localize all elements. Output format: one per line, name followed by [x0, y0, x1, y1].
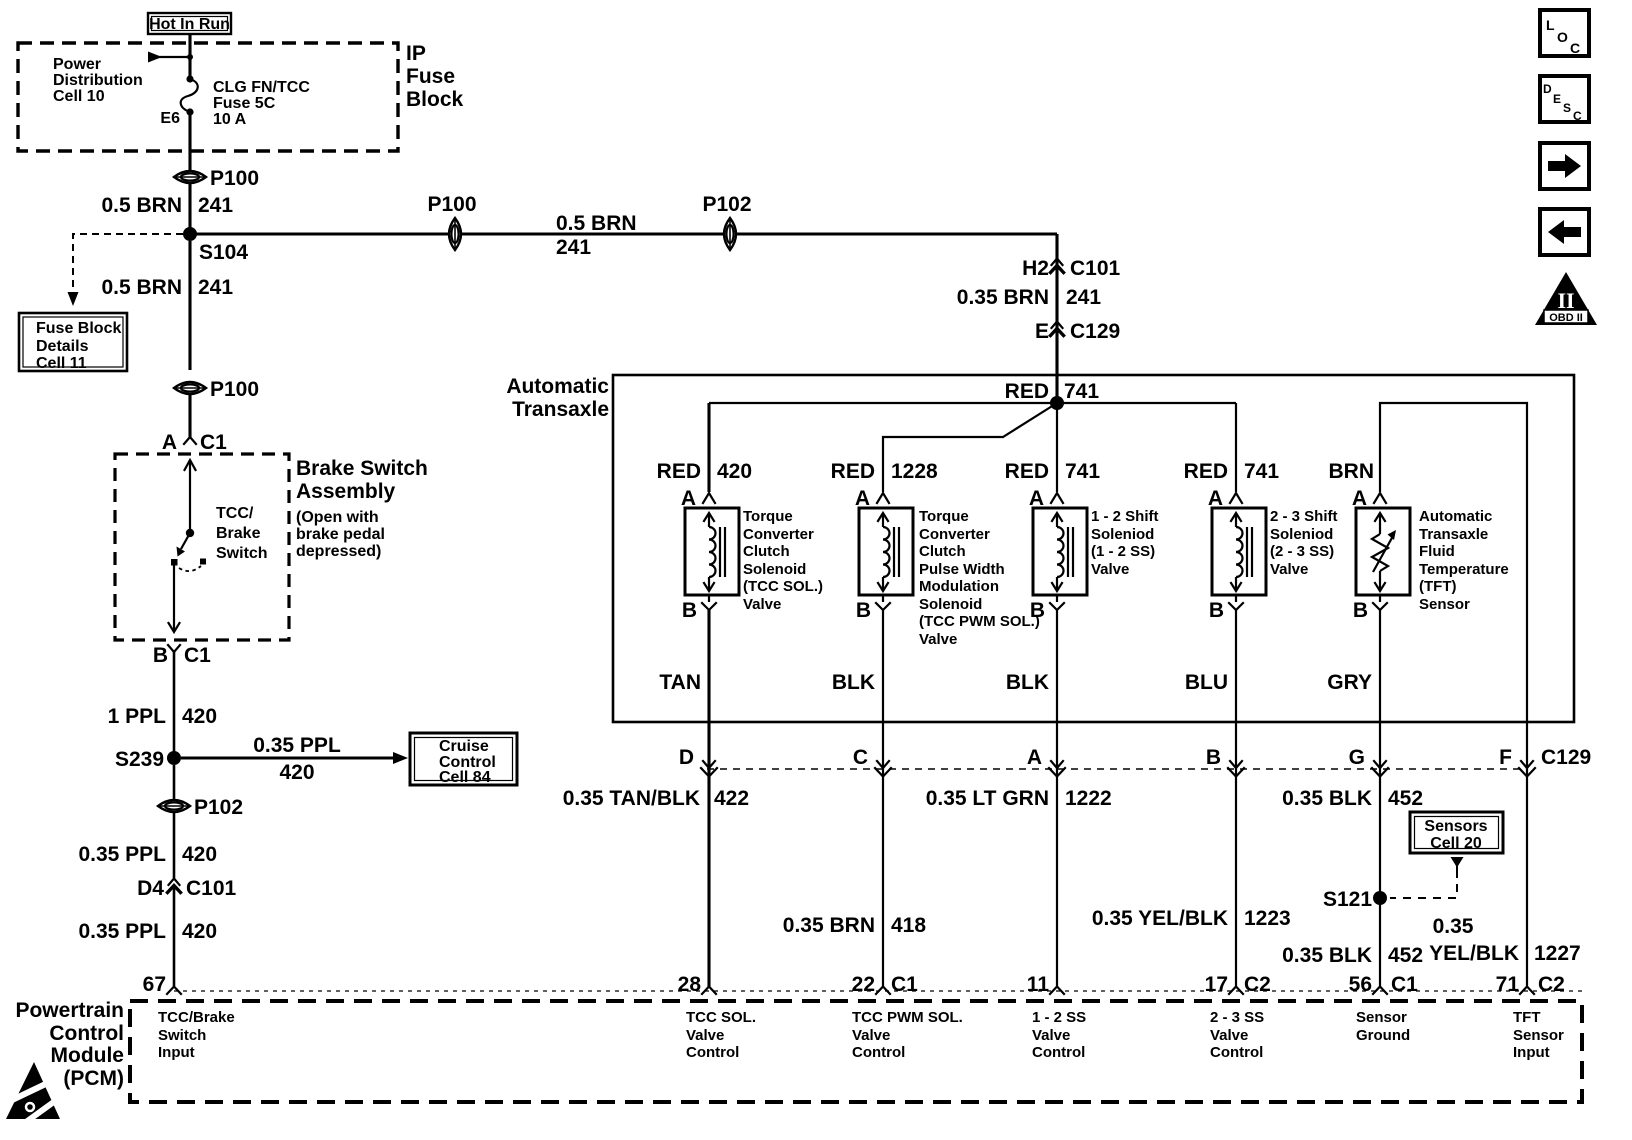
svg-text:C1: C1	[891, 973, 918, 996]
svg-text:17: 17	[1205, 973, 1228, 996]
svg-text:Modulation: Modulation	[919, 578, 999, 595]
svg-text:28: 28	[678, 973, 702, 996]
wire P100 to S104	[188, 184, 191, 234]
svg-text:(TCC SOL.): (TCC SOL.)	[743, 578, 823, 595]
connector P102 (grommet)	[158, 796, 243, 819]
wire S239 down to P102	[173, 765, 176, 799]
node Hot In Run	[148, 13, 231, 34]
svg-text:(2 - 3 SS): (2 - 3 SS)	[1270, 543, 1334, 560]
svg-text:741: 741	[1064, 380, 1099, 403]
svg-text:G: G	[1349, 746, 1365, 769]
svg-text:0.35 PPL: 0.35 PPL	[253, 734, 341, 757]
svg-text:B: B	[153, 644, 168, 667]
svg-text:P102: P102	[702, 193, 751, 216]
connector C129 pin C	[853, 746, 891, 777]
svg-text:0.35 BLK: 0.35 BLK	[1282, 787, 1372, 810]
svg-text:241: 241	[198, 194, 233, 217]
svg-text:C: C	[853, 746, 868, 769]
wire dashed branch to Fuse Block Details	[68, 234, 184, 306]
svg-text:brake pedal: brake pedal	[296, 526, 385, 543]
svg-text:C101: C101	[1070, 257, 1121, 280]
svg-text:Input: Input	[1513, 1044, 1550, 1061]
svg-text:B: B	[1209, 599, 1224, 622]
solenoid 1-2 Shift (1-2 SS)	[1029, 487, 1159, 622]
svg-text:C2: C2	[1538, 973, 1565, 996]
svg-text:Hot In Run: Hot In Run	[149, 16, 230, 33]
svg-text:Fuse 5C: Fuse 5C	[213, 95, 276, 112]
connector P100 inline on horizontal run	[427, 193, 476, 250]
node S121	[1373, 891, 1387, 905]
connector P102 inline on horizontal run	[702, 193, 751, 250]
wire RED 741 bus	[709, 402, 1236, 404]
pin 11	[1027, 973, 1064, 996]
svg-text:0.35: 0.35	[1433, 915, 1474, 938]
svg-text:Assembly: Assembly	[296, 480, 396, 503]
svg-text:C1: C1	[1391, 973, 1418, 996]
svg-text:452: 452	[1388, 787, 1423, 810]
solenoid TCC PWM SOL (Torque Converter Clutch Pulse Width Modulation Solenoid Valve)	[855, 487, 1040, 648]
svg-text:0.5 BRN: 0.5 BRN	[556, 212, 637, 235]
connector C1 pin B symbol	[153, 644, 211, 667]
svg-text:0.35 BRN: 0.35 BRN	[783, 914, 875, 937]
svg-text:B: B	[1353, 599, 1368, 622]
svg-text:56: 56	[1349, 973, 1372, 996]
wire arrow to Power Distribution	[148, 52, 193, 63]
svg-text:RED: RED	[1005, 380, 1049, 403]
svg-text:P100: P100	[210, 378, 259, 401]
svg-text:420: 420	[182, 843, 217, 866]
svg-text:TCC/Brake: TCC/Brake	[158, 1009, 235, 1026]
svg-text:Sensor: Sensor	[1356, 1009, 1407, 1026]
svg-text:S239: S239	[115, 748, 164, 771]
icon LOC button	[1540, 10, 1589, 56]
svg-text:Torque: Torque	[919, 508, 969, 525]
svg-text:1 - 2 SS: 1 - 2 SS	[1032, 1009, 1086, 1026]
svg-text:Fuse Block: Fuse Block	[36, 320, 121, 337]
svg-text:RED: RED	[1005, 460, 1049, 483]
svg-text:Sensors: Sensors	[1424, 818, 1487, 835]
svg-text:420: 420	[182, 705, 217, 728]
svg-text:0.35 TAN/BLK: 0.35 TAN/BLK	[563, 787, 700, 810]
svg-text:Temperature: Temperature	[1419, 561, 1509, 578]
svg-text:1 PPL: 1 PPL	[108, 705, 167, 728]
svg-text:22: 22	[852, 973, 875, 996]
node Cruise Control Cell 84	[410, 733, 517, 786]
svg-text:E: E	[1553, 92, 1561, 106]
pin 22 C1	[852, 973, 919, 996]
svg-text:422: 422	[714, 787, 749, 810]
svg-text:D4: D4	[137, 877, 164, 900]
svg-text:C101: C101	[186, 877, 237, 900]
svg-text:Cell 10: Cell 10	[53, 88, 105, 105]
svg-text:S121: S121	[1323, 888, 1372, 911]
svg-text:C1: C1	[200, 431, 227, 454]
connector C129 pin E inline symbol	[1035, 320, 1120, 343]
icon OBD II triangle	[1535, 272, 1597, 325]
svg-text:A: A	[1027, 746, 1042, 769]
wire P102 to C101	[173, 813, 176, 878]
IP Fuse Block dashed box	[18, 43, 398, 151]
svg-text:S104: S104	[199, 241, 248, 264]
svg-text:420: 420	[717, 460, 752, 483]
wire F column down	[1526, 722, 1528, 987]
svg-text:A: A	[162, 431, 177, 454]
svg-text:Soleniod: Soleniod	[1091, 526, 1154, 543]
svg-text:Block: Block	[406, 88, 464, 111]
node RED 741 junction	[1050, 396, 1064, 410]
connector P100 (grommet)	[174, 167, 259, 190]
svg-text:241: 241	[198, 276, 233, 299]
svg-text:L: L	[1546, 17, 1555, 33]
svg-text:RED: RED	[657, 460, 701, 483]
svg-text:depressed): depressed)	[296, 543, 381, 560]
wire TFT B down	[1379, 610, 1381, 987]
wire B C1 to S239	[173, 652, 176, 758]
svg-text:Transaxle: Transaxle	[512, 398, 609, 421]
connector C129 pin B	[1206, 746, 1244, 777]
svg-text:Valve: Valve	[743, 596, 781, 613]
svg-text:Clutch: Clutch	[743, 543, 790, 560]
svg-text:11: 11	[1027, 973, 1050, 996]
connector C129 pin G	[1349, 746, 1388, 777]
svg-text:67: 67	[143, 973, 166, 996]
svg-text:C: C	[1570, 40, 1580, 56]
svg-text:H2: H2	[1022, 257, 1049, 280]
connector C129 pin F	[1499, 746, 1591, 777]
svg-text:P100: P100	[210, 167, 259, 190]
svg-text:0.35 BRN: 0.35 BRN	[957, 286, 1049, 309]
wire drop to 2-3 SS	[1235, 403, 1237, 492]
svg-text:Transaxle: Transaxle	[1419, 526, 1488, 543]
svg-text:(Open with: (Open with	[296, 509, 379, 526]
svg-text:Solenoid: Solenoid	[743, 561, 806, 578]
svg-text:TFT: TFT	[1513, 1009, 1541, 1026]
connector P100 second (grommet)	[174, 378, 259, 401]
svg-text:Torque: Torque	[743, 508, 793, 525]
svg-text:Powertrain: Powertrain	[15, 999, 124, 1022]
svg-text:GRY: GRY	[1327, 671, 1372, 694]
svg-text:(TFT): (TFT)	[1419, 578, 1456, 595]
wire right column down to transaxle	[1055, 234, 1058, 403]
wire 2-3 SS B down	[1235, 610, 1237, 987]
svg-text:Switch: Switch	[158, 1027, 206, 1044]
svg-text:Switch: Switch	[216, 545, 268, 562]
svg-text:TCC/: TCC/	[216, 505, 254, 522]
svg-text:420: 420	[279, 761, 314, 784]
svg-text:0.35 BLK: 0.35 BLK	[1282, 944, 1372, 967]
svg-text:F: F	[1499, 746, 1512, 769]
svg-text:C129: C129	[1541, 746, 1591, 769]
svg-text:Automatic: Automatic	[1419, 508, 1492, 525]
svg-text:Control: Control	[49, 1022, 124, 1045]
svg-text:Soleniod: Soleniod	[1270, 526, 1333, 543]
svg-text:TCC SOL.: TCC SOL.	[686, 1009, 756, 1026]
solenoid TCC SOL (Torque Converter Clutch Solenoid Valve)	[681, 487, 823, 622]
wire drop to TCC SOL	[707, 403, 710, 492]
icon DESC button	[1540, 76, 1589, 123]
svg-text:Converter: Converter	[743, 526, 814, 543]
svg-text:Module: Module	[51, 1044, 125, 1067]
node Sensors Cell 20	[1410, 812, 1503, 853]
wire P100 to connector C1 pin A	[188, 395, 191, 437]
wire dashed from Sensors Cell 20 to S121	[1390, 857, 1464, 898]
svg-text:741: 741	[1244, 460, 1279, 483]
svg-text:Brake: Brake	[216, 525, 261, 542]
wire from Hot In Run into IP fuse block	[188, 34, 191, 79]
svg-text:10 A: 10 A	[213, 111, 247, 128]
svg-text:Pulse Width: Pulse Width	[919, 561, 1005, 578]
svg-text:BLK: BLK	[832, 671, 875, 694]
svg-text:0.35 YEL/BLK: 0.35 YEL/BLK	[1092, 907, 1228, 930]
svg-text:TAN: TAN	[659, 671, 701, 694]
svg-text:Sensor: Sensor	[1419, 596, 1470, 613]
svg-text:2 - 3 Shift: 2 - 3 Shift	[1270, 508, 1338, 525]
svg-text:Control: Control	[852, 1044, 905, 1061]
svg-text:Details: Details	[36, 338, 89, 355]
svg-text:241: 241	[556, 236, 591, 259]
svg-text:Valve: Valve	[919, 631, 957, 648]
svg-text:Fuse: Fuse	[406, 65, 455, 88]
svg-text:Valve: Valve	[686, 1027, 724, 1044]
svg-text:E: E	[1035, 320, 1049, 343]
ESD warning triangle	[6, 1062, 62, 1122]
wire TCC SOL B down	[707, 610, 710, 987]
svg-text:Converter: Converter	[919, 526, 990, 543]
svg-text:BLU: BLU	[1185, 671, 1228, 694]
wire TCC PWM B down	[882, 610, 884, 987]
svg-text:418: 418	[891, 914, 926, 937]
switch TCC/Brake Switch	[169, 460, 207, 632]
svg-text:C1: C1	[184, 644, 211, 667]
svg-text:(TCC PWM SOL.): (TCC PWM SOL.)	[919, 613, 1040, 630]
svg-text:RED: RED	[831, 460, 875, 483]
svg-text:Brake Switch: Brake Switch	[296, 457, 428, 480]
svg-text:71: 71	[1496, 973, 1520, 996]
wire main horizontal run S104 to right column	[190, 232, 1057, 235]
svg-text:C129: C129	[1070, 320, 1120, 343]
svg-text:TCC PWM SOL.: TCC PWM SOL.	[852, 1009, 963, 1026]
Brake Switch Assembly dashed box	[115, 454, 289, 640]
svg-text:D: D	[679, 746, 694, 769]
fuse CLG FN/TCC Fuse 5C 10A	[181, 75, 198, 115]
connector C129 dashed interface line	[707, 768, 1527, 770]
svg-text:1228: 1228	[891, 460, 938, 483]
svg-text:B: B	[682, 599, 697, 622]
svg-text:Control: Control	[1210, 1044, 1263, 1061]
wire diagonal branch to TCC PWM	[883, 403, 1057, 492]
wire arrow to Cruise Control	[181, 734, 408, 784]
svg-text:OBD II: OBD II	[1549, 312, 1583, 324]
svg-text:Cell 84: Cell 84	[439, 769, 491, 786]
svg-text:Ground: Ground	[1356, 1027, 1410, 1044]
svg-text:0.35 PPL: 0.35 PPL	[78, 920, 166, 943]
svg-text:0.35 PPL: 0.35 PPL	[78, 843, 166, 866]
svg-text:1227: 1227	[1534, 942, 1581, 965]
svg-text:Solenoid: Solenoid	[919, 596, 982, 613]
svg-text:C2: C2	[1244, 973, 1271, 996]
svg-text:S: S	[1563, 101, 1571, 115]
wire 1-2 SS B down	[1056, 610, 1058, 987]
svg-text:Valve: Valve	[1091, 561, 1129, 578]
wire drop to 1-2 SS	[1056, 403, 1058, 492]
pin 28	[678, 973, 716, 996]
icon right-arrow button	[1540, 143, 1589, 189]
svg-text:IP: IP	[406, 42, 426, 65]
wire TFT feed loop	[1380, 403, 1527, 722]
pin 56 C1	[1349, 973, 1419, 996]
svg-text:BRN: BRN	[1329, 460, 1375, 483]
svg-text:Valve: Valve	[1032, 1027, 1070, 1044]
svg-text:Control: Control	[1032, 1044, 1085, 1061]
wire S104 down to P100	[188, 241, 191, 370]
svg-text:Sensor: Sensor	[1513, 1027, 1564, 1044]
svg-text:Distribution: Distribution	[53, 72, 143, 89]
svg-text:1 - 2 Shift: 1 - 2 Shift	[1091, 508, 1159, 525]
svg-text:O: O	[1557, 29, 1568, 45]
connector C1 pin A symbol	[162, 431, 227, 454]
svg-text:(PCM): (PCM)	[63, 1067, 124, 1090]
sensor TFT (Automatic Transaxle Fluid Temperature Sensor)	[1352, 487, 1509, 622]
svg-text:Control: Control	[686, 1044, 739, 1061]
svg-text:420: 420	[182, 920, 217, 943]
node S104	[183, 227, 197, 241]
svg-text:1222: 1222	[1065, 787, 1112, 810]
svg-text:RED: RED	[1184, 460, 1228, 483]
svg-text:Cruise: Cruise	[439, 738, 489, 755]
svg-text:Cell 11: Cell 11	[36, 355, 87, 372]
svg-text:452: 452	[1388, 944, 1423, 967]
connector C129 pin A	[1027, 746, 1065, 777]
connector C101 pin H2 inline symbol	[1022, 257, 1120, 280]
svg-text:E6: E6	[160, 110, 180, 127]
svg-text:Input: Input	[158, 1044, 195, 1061]
svg-text:Valve: Valve	[1270, 561, 1308, 578]
svg-text:D: D	[1543, 82, 1552, 96]
svg-text:BLK: BLK	[1006, 671, 1049, 694]
pin 71 C2	[1496, 973, 1565, 996]
svg-text:0.5 BRN: 0.5 BRN	[101, 194, 182, 217]
svg-text:CLG FN/TCC: CLG FN/TCC	[213, 79, 310, 96]
svg-text:Power: Power	[53, 56, 101, 73]
svg-text:1223: 1223	[1244, 907, 1291, 930]
wire C101 to PCM pin 67	[173, 886, 176, 986]
svg-text:P100: P100	[427, 193, 476, 216]
wire fuse to P100	[188, 112, 191, 170]
svg-text:Automatic: Automatic	[506, 375, 609, 398]
svg-text:B: B	[856, 599, 871, 622]
svg-text:2 - 3 SS: 2 - 3 SS	[1210, 1009, 1264, 1026]
PCM dashed box	[130, 1001, 1582, 1102]
svg-text:P102: P102	[194, 796, 243, 819]
node Fuse Block Details Cell 11	[19, 313, 127, 372]
connector C129 pin D	[679, 746, 717, 777]
svg-text:Valve: Valve	[1210, 1027, 1248, 1044]
svg-text:Valve: Valve	[852, 1027, 890, 1044]
svg-text:(1 - 2 SS): (1 - 2 SS)	[1091, 543, 1155, 560]
icon left-arrow button	[1540, 209, 1589, 255]
Automatic Transaxle box	[613, 375, 1574, 722]
node S239	[167, 751, 181, 765]
pin 67	[143, 973, 181, 996]
connector C101 pin D4 inline symbol	[137, 877, 236, 900]
PCM connector face thin dashed line	[174, 990, 1582, 992]
svg-text:741: 741	[1065, 460, 1100, 483]
svg-text:B: B	[1030, 599, 1045, 622]
pin 17 C2	[1205, 973, 1271, 996]
svg-text:0.35 LT GRN: 0.35 LT GRN	[926, 787, 1049, 810]
svg-text:YEL/BLK: YEL/BLK	[1429, 942, 1519, 965]
svg-text:0.5 BRN: 0.5 BRN	[101, 276, 182, 299]
svg-text:Clutch: Clutch	[919, 543, 966, 560]
solenoid 2-3 Shift (2-3 SS)	[1208, 487, 1338, 622]
svg-text:B: B	[1206, 746, 1221, 769]
svg-text:Fluid: Fluid	[1419, 543, 1455, 560]
svg-text:241: 241	[1066, 286, 1101, 309]
svg-text:C: C	[1573, 109, 1582, 123]
svg-text:Cell 20: Cell 20	[1430, 835, 1482, 852]
